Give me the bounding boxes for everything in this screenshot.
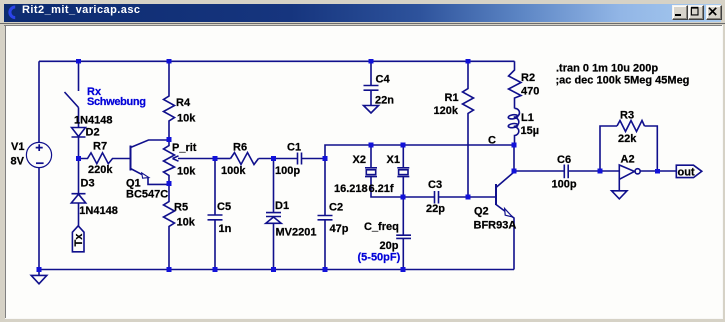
wire C1 to node [302, 158, 326, 160]
node V1/rail [37, 267, 42, 272]
node C1/C2 [323, 156, 328, 161]
node C4 top [369, 59, 374, 64]
Q2 emitter arrow [505, 209, 513, 217]
svg-text:P_rit: P_rit [172, 142, 197, 154]
capacitor C_freq plates [396, 235, 411, 238]
titlebar icon [4, 4, 26, 24]
node R4 top [167, 59, 172, 64]
svg-text:C6: C6 [557, 154, 571, 166]
svg-text:Q1: Q1 [126, 178, 141, 190]
wire C6 to A2 [568, 170, 618, 172]
wire bottom rail [39, 269, 514, 271]
svg-text:C1: C1 [287, 142, 301, 154]
svg-text:100p: 100p [552, 178, 577, 190]
frame lines [0, 23, 725, 24]
node Q1 collector [167, 137, 172, 142]
switch blade Rx [65, 92, 79, 108]
wire V1 bottom to ground [38, 168, 40, 276]
svg-text:Q2: Q2 [474, 206, 489, 218]
resistor R1 [463, 61, 474, 197]
svg-text:A2: A2 [621, 153, 635, 165]
svg-text:(5-50pF): (5-50pF) [358, 252, 401, 264]
svg-text:Tx: Tx [73, 233, 85, 247]
crystal X1 [397, 145, 409, 197]
svg-text:BC547C: BC547C [126, 189, 168, 201]
svg-text:C4: C4 [376, 74, 391, 86]
node R5 bottom [167, 267, 172, 272]
R3 feedback left vertical [600, 126, 617, 171]
svg-text:;ac dec 100k 5Meg 45Meg: ;ac dec 100k 5Meg 45Meg [556, 74, 690, 86]
node wiper/R6/C5 [213, 156, 218, 161]
wire C_freq leads [402, 197, 404, 270]
svg-text:C_freq: C_freq [364, 221, 399, 233]
diode D2 [72, 128, 86, 138]
svg-text:R1: R1 [445, 92, 459, 104]
wire D3 to Tx port [78, 203, 80, 226]
capacitor C3 plates [435, 191, 439, 204]
svg-text:10k: 10k [177, 113, 196, 125]
svg-text:C2: C2 [329, 201, 343, 213]
source V1 circle [26, 142, 51, 167]
wire C2 leads [324, 159, 326, 270]
node C_freq bottom [401, 267, 406, 272]
node D1 bottom [271, 267, 276, 272]
svg-text:100p: 100p [275, 165, 300, 177]
V1 minus sign [36, 162, 44, 164]
node switch top [76, 59, 81, 64]
svg-text:D3: D3 [81, 178, 95, 190]
svg-text:R4: R4 [176, 97, 191, 109]
crystal X2 box [366, 170, 375, 175]
maximize button [688, 5, 704, 20]
svg-text:BFR93A: BFR93A [474, 220, 517, 232]
crystal X2 [365, 145, 403, 197]
svg-text:100k: 100k [221, 165, 246, 177]
Q1 emitter arrow [142, 173, 149, 178]
transistor Q1 base bar [130, 146, 132, 171]
node C2 bottom [323, 267, 328, 272]
node R1 top [466, 59, 471, 64]
capacitor C2 plates [318, 216, 333, 220]
port out [676, 165, 702, 177]
minimize button [672, 5, 688, 20]
wire C4 leads [370, 61, 372, 105]
wire mid row pot to R6 [215, 158, 231, 160]
inductor L1 loops [508, 114, 518, 119]
svg-text:R7: R7 [93, 141, 107, 153]
svg-text:1N4148: 1N4148 [74, 115, 113, 127]
wire D2 top lead [78, 108, 80, 128]
A2 ground stub [618, 179, 620, 191]
node A2 output [655, 169, 660, 174]
svg-text:L1: L1 [521, 112, 534, 124]
svg-text:22n: 22n [375, 95, 394, 107]
wire Q2 collector to C6 [514, 170, 564, 172]
resistor R6 [231, 153, 259, 165]
svg-text:D2: D2 [86, 127, 100, 139]
svg-text:8V: 8V [11, 156, 25, 168]
node Q2 collector [512, 169, 517, 174]
svg-text:MV2201: MV2201 [276, 227, 317, 239]
svg-text:10k: 10k [177, 217, 196, 229]
node L1 bottom / C [512, 143, 517, 148]
svg-text:R6: R6 [233, 142, 247, 154]
node X1 bottom [401, 195, 406, 200]
wire D1 leads [273, 159, 275, 270]
svg-text:1n: 1n [219, 223, 232, 235]
svg-text:V1: V1 [11, 141, 24, 153]
svg-text:20p: 20p [380, 240, 399, 252]
wire R6 to C1 [259, 158, 298, 160]
resistor R3 [617, 121, 645, 132]
junction squares [37, 59, 660, 272]
svg-text:1N4148: 1N4148 [79, 205, 118, 217]
svg-text:120k: 120k [434, 105, 459, 117]
V1 plus sign [36, 144, 43, 151]
svg-text:Schwebung: Schwebung [87, 96, 146, 108]
svg-text:R3: R3 [620, 110, 634, 122]
transistor Q2 emitter [496, 205, 514, 270]
svg-text:220k: 220k [88, 164, 113, 176]
svg-text:16.218: 16.218 [334, 183, 368, 195]
transistor Q2 base bar [495, 184, 497, 205]
svg-text:22k: 22k [618, 133, 637, 145]
inverter A2 bubble [635, 169, 640, 174]
node D2/R7/D3 [76, 156, 81, 161]
svg-text:22p: 22p [426, 203, 445, 215]
svg-text:470: 470 [521, 86, 539, 98]
R3 feedback right vertical [645, 126, 658, 171]
svg-text:R5: R5 [174, 202, 188, 214]
node A2 input [598, 169, 603, 174]
potentiometer P_rit wiper arrow [173, 156, 216, 161]
svg-text:X1: X1 [387, 154, 400, 166]
ground C4 [364, 106, 379, 114]
svg-text:15µ: 15µ [521, 125, 540, 137]
node C5 bottom [213, 267, 218, 272]
ground A2 [612, 191, 627, 199]
port Tx [72, 226, 84, 252]
svg-text:10k: 10k [177, 166, 196, 178]
capacitor C5 plates [208, 215, 223, 220]
svg-text:6.21f: 6.21f [369, 183, 394, 195]
inverter A2 [619, 165, 634, 179]
close button [706, 5, 722, 20]
wire A2 output [640, 170, 677, 172]
crystal X1 box [399, 170, 408, 175]
capacitor C6 plates [564, 165, 568, 179]
node X2 top [369, 143, 374, 148]
svg-text:.tran 0 1m 10u 200p: .tran 0 1m 10u 200p [556, 63, 658, 75]
svg-text:X2: X2 [353, 154, 366, 166]
potentiometer P_rit body [164, 140, 175, 185]
wire D2 to R7 node [78, 137, 80, 159]
wire switch stub [78, 61, 80, 91]
wire C5 leads [214, 159, 216, 270]
node X1 top [401, 143, 406, 148]
svg-text:C3: C3 [428, 179, 442, 191]
wire V1 top [38, 61, 40, 142]
resistor R5 [164, 184, 175, 269]
resistor R2 [509, 61, 522, 108]
resistor R7 [79, 153, 131, 164]
svg-text:C: C [488, 135, 496, 147]
wire C3 row [403, 196, 496, 198]
ground main left [31, 275, 47, 283]
wire node C horizontal [325, 145, 514, 159]
resistor R4 [164, 61, 175, 139]
capacitor C4 plates [364, 86, 379, 91]
svg-text:D1: D1 [275, 200, 289, 212]
transistor Q1 emitter [131, 169, 170, 185]
node R6/C1/D1 [271, 156, 276, 161]
svg-text:R2: R2 [521, 72, 535, 84]
capacitor C1 plates [298, 153, 302, 165]
wire top rail [39, 60, 515, 62]
node Q1 emitter [167, 181, 172, 186]
inductor L1 [515, 108, 520, 145]
diode D3 [71, 194, 85, 203]
transistor Q2 collector [496, 145, 514, 188]
svg-text:C5: C5 [217, 201, 231, 213]
transistor Q1 collector [131, 140, 170, 148]
svg-text:47p: 47p [330, 223, 349, 235]
varicap D1 [266, 213, 281, 224]
svg-text:out: out [678, 167, 695, 179]
wire D3 top lead [78, 159, 80, 194]
node R1 bottom / Q2 base [466, 195, 471, 200]
window title bar [4, 4, 721, 22]
